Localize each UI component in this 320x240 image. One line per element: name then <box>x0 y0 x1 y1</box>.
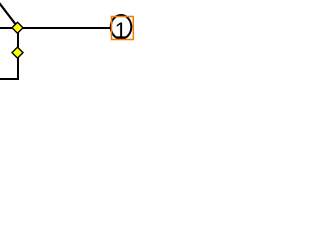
wire: bottom horizontal from corner to off-screen left <box>0 78 19 80</box>
port P1: numbered terminal circle <box>111 15 132 43</box>
wire: vertical from node A down through node B to bottom corner <box>17 28 19 80</box>
circuit schematic fragment <box>0 0 150 82</box>
wire: horizontal from off-screen left through node A to port P1 <box>0 27 111 29</box>
wire: diagonal from off-screen top-left to node A <box>0 2 18 28</box>
selection box around port P1 (orange) <box>112 17 134 40</box>
node A junction (yellow diamond) <box>12 22 23 33</box>
node B junction (yellow diamond) <box>12 47 23 58</box>
